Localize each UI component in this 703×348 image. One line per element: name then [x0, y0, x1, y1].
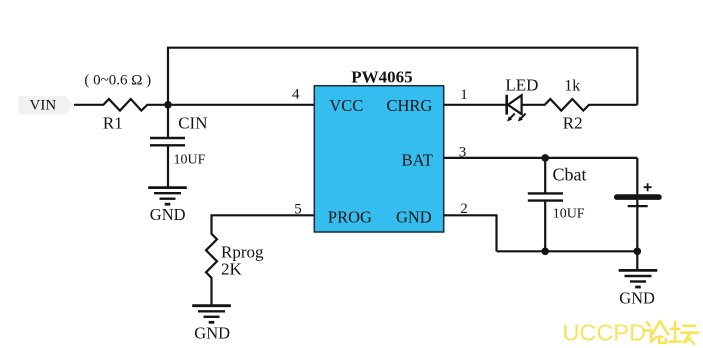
svg-text:10UF: 10UF: [174, 152, 206, 167]
svg-text:1: 1: [460, 87, 468, 103]
svg-text:3: 3: [459, 145, 467, 161]
svg-text:PROG: PROG: [328, 207, 372, 226]
svg-text:VIN: VIN: [30, 97, 57, 113]
svg-text:( 0~0.6 Ω ): ( 0~0.6 Ω ): [84, 72, 151, 88]
svg-text:BAT: BAT: [402, 150, 433, 169]
svg-text:10UF: 10UF: [553, 206, 585, 221]
svg-text:GND: GND: [194, 324, 230, 343]
svg-text:GND: GND: [150, 205, 186, 224]
svg-text:LED: LED: [505, 75, 538, 94]
svg-text:1k: 1k: [564, 77, 580, 94]
svg-text:GND: GND: [396, 207, 432, 226]
svg-text:4: 4: [292, 87, 300, 103]
svg-text:CIN: CIN: [178, 114, 207, 133]
svg-text:GND: GND: [619, 289, 655, 308]
svg-text:R2: R2: [563, 114, 583, 133]
svg-text:UCCPD: UCCPD: [563, 319, 647, 345]
svg-text:VCC: VCC: [329, 96, 363, 115]
svg-text:PW4065: PW4065: [351, 68, 412, 87]
svg-text:5: 5: [294, 202, 302, 218]
svg-text:R1: R1: [103, 114, 123, 133]
svg-text:CHRG: CHRG: [386, 96, 432, 115]
svg-text:2: 2: [460, 201, 468, 217]
svg-text:Cbat: Cbat: [553, 164, 587, 184]
svg-text:2K: 2K: [221, 259, 243, 278]
